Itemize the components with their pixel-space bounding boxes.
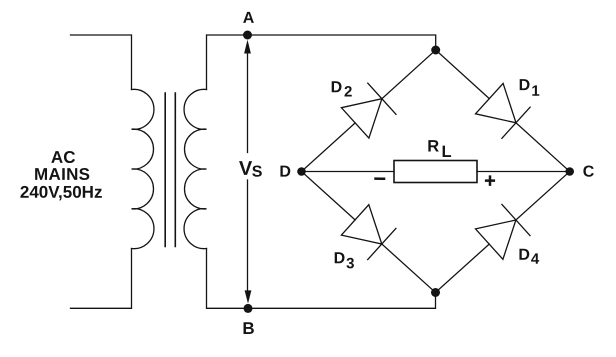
svg-text:D: D	[334, 250, 346, 267]
svg-text:4: 4	[531, 251, 540, 268]
svg-text:1: 1	[531, 83, 539, 100]
svg-text:MAINS: MAINS	[34, 165, 90, 184]
svg-text:D: D	[331, 79, 343, 96]
svg-text:L: L	[442, 143, 452, 161]
svg-text:A: A	[243, 10, 255, 27]
svg-text:D: D	[519, 77, 531, 94]
svg-text:C: C	[583, 164, 595, 181]
svg-text:3: 3	[346, 255, 354, 272]
svg-text:B: B	[242, 319, 254, 338]
svg-text:2: 2	[344, 84, 352, 101]
svg-text:V: V	[239, 158, 253, 180]
svg-text:D: D	[279, 164, 291, 181]
svg-text:S: S	[252, 164, 263, 181]
svg-text:R: R	[427, 138, 439, 156]
svg-text:240V,50Hz: 240V,50Hz	[20, 183, 103, 202]
svg-text:D: D	[518, 247, 530, 264]
